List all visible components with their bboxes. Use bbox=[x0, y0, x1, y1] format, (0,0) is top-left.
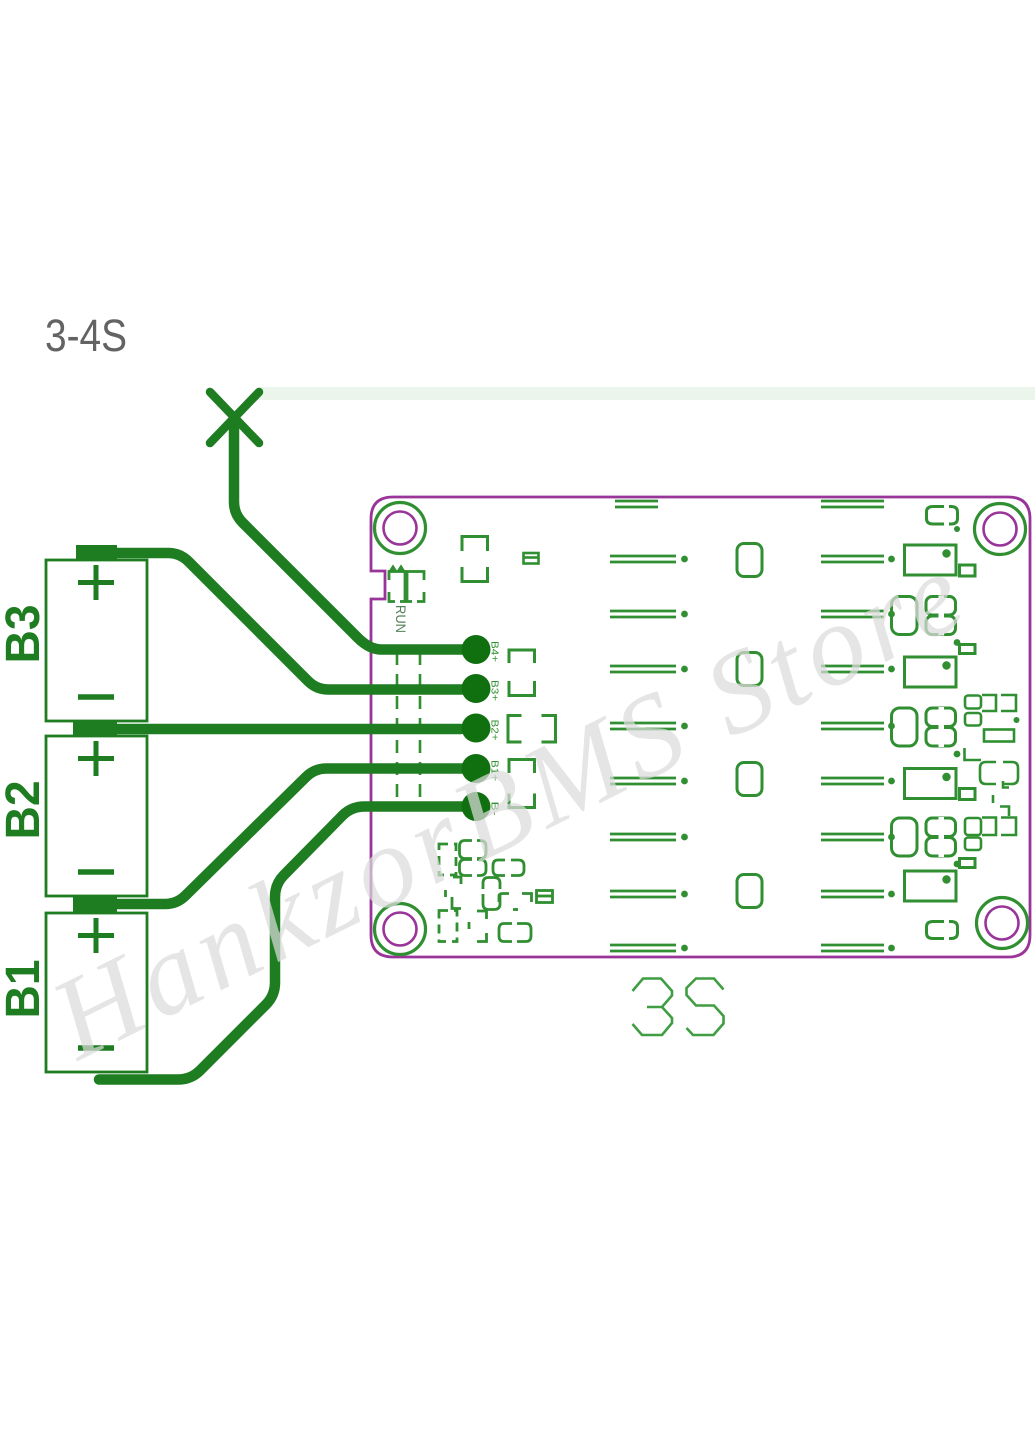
B2/B1 junction nub bbox=[73, 896, 117, 913]
wire B2+ bbox=[110, 724, 461, 735]
footprint brackets beside pads bbox=[508, 650, 556, 808]
trace bars column 2 bbox=[821, 501, 895, 951]
B3 positive terminal nub bbox=[76, 545, 117, 561]
wire B3+ bbox=[110, 553, 462, 690]
battery B3 bbox=[46, 560, 147, 721]
small component top bbox=[524, 553, 540, 564]
svg-text:B3+: B3+ bbox=[489, 680, 501, 701]
trace bars column 1 bbox=[610, 501, 688, 951]
right extra cluster A bbox=[965, 695, 1020, 760]
svg-text:RUN: RUN bbox=[393, 605, 408, 633]
mid footprints column bbox=[737, 544, 762, 908]
pad B- bbox=[462, 792, 491, 821]
pad B2+ bbox=[462, 714, 491, 743]
wire B- bbox=[99, 807, 462, 1080]
pad B3+ bbox=[462, 674, 491, 703]
right extra cluster B bbox=[965, 762, 1018, 850]
mounting hole top-left bbox=[375, 503, 426, 554]
svg-text:B2: B2 bbox=[0, 781, 50, 840]
svg-text:3-4S: 3-4S bbox=[45, 310, 127, 361]
mounting hole bottom-right bbox=[977, 898, 1028, 949]
silkscreen footprint top-left bbox=[462, 537, 488, 582]
bottom-left silkscreen cluster bbox=[439, 841, 553, 942]
pad B4+ bbox=[462, 635, 491, 664]
RUN jumper connector bbox=[389, 572, 424, 602]
svg-text:B3: B3 bbox=[0, 605, 50, 664]
battery B2 bbox=[46, 736, 147, 896]
wire B1+ bbox=[110, 769, 462, 905]
dashed silkscreen lines bbox=[397, 652, 420, 800]
B3/B2 junction nub bbox=[73, 721, 117, 737]
mounting hole bottom-left bbox=[375, 904, 426, 955]
battery B1 bbox=[46, 913, 147, 1072]
wire B4+ (unused, crossed) bbox=[234, 424, 462, 650]
mounting hole top-right bbox=[975, 504, 1026, 555]
right column ICs bbox=[892, 507, 976, 902]
pad B1+ bbox=[462, 754, 491, 783]
svg-text:B4+: B4+ bbox=[489, 641, 501, 662]
3S designator bbox=[633, 979, 724, 1036]
svg-text:B2+: B2+ bbox=[489, 720, 501, 741]
X cross mark bbox=[210, 392, 259, 443]
faint green band bbox=[258, 387, 1035, 400]
PCB board outline with notch bbox=[371, 497, 1030, 957]
